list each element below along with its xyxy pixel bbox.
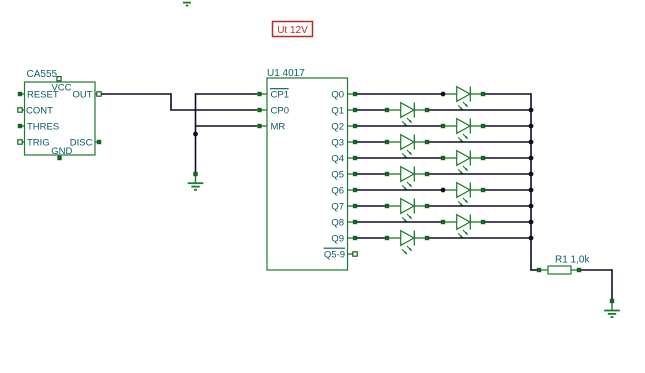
LED D1 <box>445 87 485 111</box>
wire Q8 output <box>357 221 441 223</box>
LED D8 <box>385 199 429 223</box>
svg-text:Q5: Q5 <box>331 169 344 180</box>
LED D6 <box>385 167 429 191</box>
supply label Ut 12V <box>273 22 313 37</box>
pin Q8 <box>331 217 357 228</box>
ground GND2 <box>188 172 204 190</box>
pin Q5-9 (inverted) <box>324 248 358 260</box>
junction dot bus row Q7 <box>529 204 534 209</box>
wire Q4 output <box>357 157 441 159</box>
LED D10 <box>385 231 429 255</box>
LED D4 <box>385 135 429 159</box>
pin OUT <box>72 89 101 100</box>
svg-text:R1 1,0k: R1 1,0k <box>555 254 590 265</box>
LED D7 <box>445 183 485 207</box>
svg-text:OUT: OUT <box>72 89 92 100</box>
svg-text:Q6: Q6 <box>331 185 344 196</box>
svg-text:Q5-9: Q5-9 <box>324 249 345 260</box>
svg-text:U1 4017: U1 4017 <box>267 68 305 79</box>
svg-text:Q2: Q2 <box>331 121 344 132</box>
wire Q3 output <box>357 141 385 143</box>
pin RESET <box>18 89 59 100</box>
junction dot bus row Q5 <box>529 172 534 177</box>
pin VCC <box>51 77 71 94</box>
wire LED D4 cathode to bus <box>429 141 531 143</box>
bus wire (common cathode) <box>530 93 532 270</box>
wire LED D10 cathode to bus <box>429 237 531 239</box>
wire Q2 output <box>357 125 441 127</box>
svg-text:Q0: Q0 <box>331 89 344 100</box>
pin CP1 <box>257 89 289 101</box>
junction dot bus row Q2 <box>529 124 534 129</box>
wire Q9 output <box>357 237 385 239</box>
wire LED D6 cathode to bus <box>429 173 531 175</box>
svg-text:TRIG: TRIG <box>27 137 50 148</box>
pin Q0 <box>331 89 357 100</box>
IC U1 4017 (decade counter) <box>257 68 357 270</box>
junction dot bus row Q9 <box>529 236 534 241</box>
junction dot bus row Q3 <box>529 140 534 145</box>
svg-text:Ut 12V: Ut 12V <box>277 25 308 36</box>
wire vertical to ground <box>195 93 197 172</box>
junction dot bus row Q6 <box>529 188 534 193</box>
wire OUT horizontal <box>101 93 171 95</box>
pin Q9 <box>331 233 357 244</box>
svg-text:DISC: DISC <box>70 137 93 148</box>
junction dot Q0 anode <box>441 92 446 97</box>
svg-text:RESET: RESET <box>27 89 59 100</box>
wire down to GND3 <box>611 269 613 299</box>
wire R1 to ground <box>581 269 612 271</box>
pin Q3 <box>331 137 357 148</box>
junction dot bus row Q1 <box>529 108 534 113</box>
wire to MR <box>196 125 258 127</box>
pin CP0 <box>257 105 289 116</box>
wire Q5 output <box>357 173 385 175</box>
wire to CP0 <box>170 109 257 111</box>
wire to CP1 <box>196 93 258 95</box>
resistor R1 1,0k <box>537 254 591 274</box>
wire LED D8 cathode to bus <box>429 205 531 207</box>
ground GND3 <box>604 299 620 317</box>
wire OUT vertical jog <box>170 93 172 110</box>
svg-text:CONT: CONT <box>26 105 53 116</box>
pin MR <box>257 121 285 132</box>
IC CA555 (timer) <box>18 69 101 160</box>
svg-text:Q7: Q7 <box>331 201 344 212</box>
wire Q0 output <box>357 93 441 95</box>
wire LED D9 cathode to bus <box>485 221 531 223</box>
LED D2 <box>385 103 429 127</box>
svg-text:CA555: CA555 <box>27 69 58 80</box>
junction dot bus row Q4 <box>529 156 534 161</box>
pin Q2 <box>331 121 357 132</box>
wire LED D1 cathode to bus <box>485 93 531 95</box>
wire Q7 output <box>357 205 385 207</box>
svg-text:MR: MR <box>271 121 286 132</box>
pin DISC <box>70 137 101 148</box>
wire bus to R1 <box>530 269 537 271</box>
pin Q5 <box>331 169 357 180</box>
svg-text:Q8: Q8 <box>331 217 344 228</box>
pin CONT <box>18 105 53 116</box>
svg-text:Q3: Q3 <box>331 137 344 148</box>
pin Q7 <box>331 201 357 212</box>
pin TRIG <box>18 137 50 148</box>
pin Q6 <box>331 185 357 196</box>
junction dot bus row Q8 <box>529 220 534 225</box>
svg-text:Q9: Q9 <box>331 233 344 244</box>
pin THRES <box>18 121 59 132</box>
wire LED D5 cathode to bus <box>485 157 531 159</box>
junction dot Q6 anode <box>441 188 446 193</box>
pin Q1 <box>331 105 357 116</box>
svg-text:CP1: CP1 <box>271 89 289 100</box>
wire LED D7 cathode to bus <box>485 189 531 191</box>
wire LED D3 cathode to bus <box>485 125 531 127</box>
wire Q6 output <box>357 189 441 191</box>
LED D5 <box>441 151 485 175</box>
svg-text:Q1: Q1 <box>331 105 344 116</box>
svg-text:CP0: CP0 <box>271 105 289 116</box>
pin Q4 <box>331 153 357 164</box>
wire LED D2 cathode to bus <box>429 109 531 111</box>
LED D9 <box>441 215 485 239</box>
ground GND1 (clipped at top edge) <box>183 3 191 6</box>
junction dot on ground wire <box>193 132 198 137</box>
LED D3 <box>441 119 485 143</box>
svg-text:THRES: THRES <box>27 121 59 132</box>
wire Q1 output <box>357 109 385 111</box>
pin GND <box>51 146 72 160</box>
svg-text:GND: GND <box>51 146 72 157</box>
svg-text:Q4: Q4 <box>331 153 344 164</box>
